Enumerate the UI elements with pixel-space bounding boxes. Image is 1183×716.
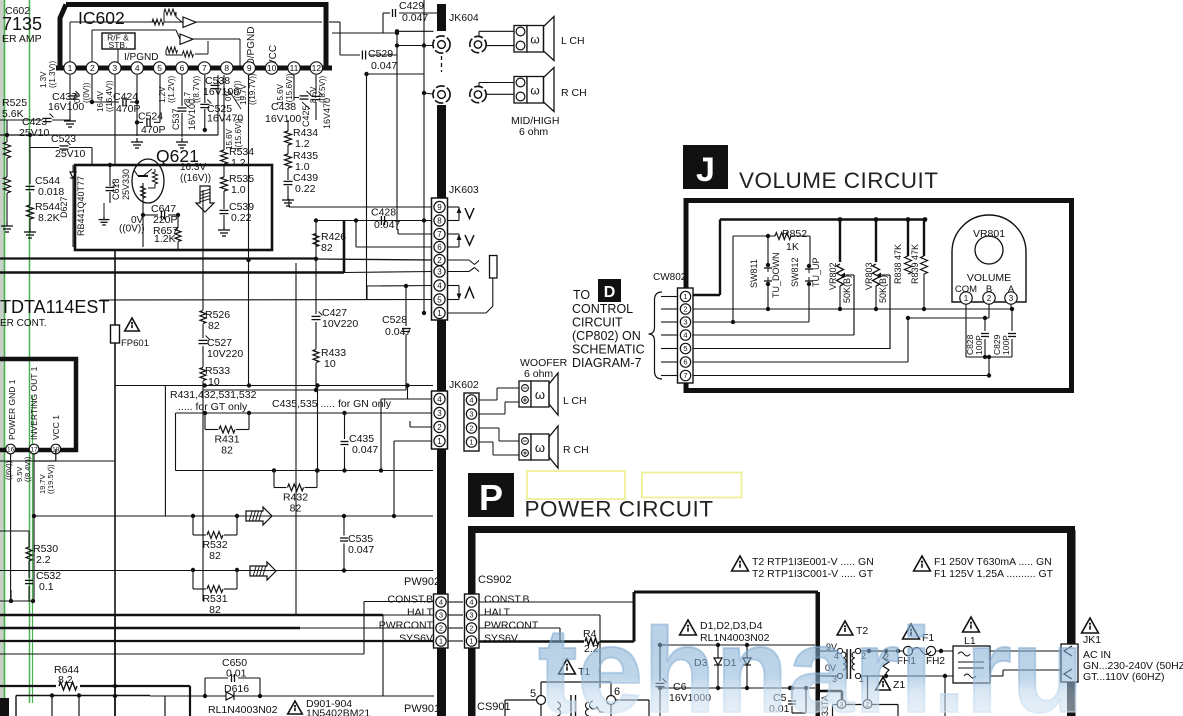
svg-text:JK603: JK603: [449, 184, 479, 196]
svg-text:F1 125V 1.25A .......... GT: F1 125V 1.25A .......... GT: [934, 568, 1054, 580]
svg-text:R CH: R CH: [563, 444, 589, 456]
svg-text:10: 10: [208, 376, 220, 388]
svg-text:1: 1: [469, 637, 473, 646]
svg-text:CONST.B: CONST.B: [484, 594, 530, 606]
svg-text:4: 4: [469, 396, 473, 405]
svg-text:16V470: 16V470: [322, 98, 332, 129]
svg-text:R CH: R CH: [561, 87, 587, 99]
svg-text:6: 6: [683, 358, 687, 367]
svg-text:0.047: 0.047: [348, 544, 374, 556]
svg-text:D: D: [604, 284, 616, 301]
svg-text:SW811: SW811: [749, 259, 759, 288]
svg-text:0.22: 0.22: [295, 183, 316, 195]
svg-text:5.6K: 5.6K: [2, 108, 24, 120]
svg-text:25V10: 25V10: [19, 127, 50, 139]
svg-text:16: 16: [7, 446, 15, 453]
svg-text:D627: D627: [59, 196, 69, 218]
svg-text:C528: C528: [382, 314, 407, 326]
svg-text:CS902: CS902: [478, 574, 512, 586]
svg-text:6 ohm: 6 ohm: [524, 368, 553, 380]
svg-text:C428: C428: [371, 207, 396, 219]
svg-text:16V100: 16V100: [265, 113, 301, 125]
svg-text:ω: ω: [530, 33, 539, 47]
svg-text:C425: C425: [301, 105, 311, 127]
svg-text:L CH: L CH: [561, 35, 585, 47]
svg-text:1.3V: 1.3V: [39, 71, 48, 88]
svg-text:6 ohm: 6 ohm: [519, 126, 548, 138]
svg-text:2: 2: [683, 305, 687, 314]
svg-text:L CH: L CH: [563, 395, 587, 407]
svg-text:5: 5: [157, 63, 162, 73]
svg-text:1: 1: [683, 292, 687, 301]
svg-text:O/PGND: O/PGND: [246, 27, 257, 66]
svg-text:C438: C438: [271, 101, 296, 113]
svg-text:TO: TO: [573, 288, 590, 302]
svg-text:VR802: VR802: [828, 262, 838, 290]
svg-text:8: 8: [437, 216, 442, 225]
svg-text:100P: 100P: [1001, 335, 1011, 355]
svg-text:SCHEMATIC: SCHEMATIC: [572, 343, 645, 357]
svg-text:1N5402BM21: 1N5402BM21: [306, 708, 370, 716]
svg-text:3: 3: [469, 410, 473, 419]
svg-text:0.047: 0.047: [371, 60, 397, 72]
svg-text:10: 10: [267, 63, 277, 73]
svg-text:PW902: PW902: [404, 576, 440, 588]
svg-text:3: 3: [439, 611, 443, 620]
svg-text:1.2K: 1.2K: [154, 233, 176, 245]
svg-text:470P: 470P: [141, 124, 166, 136]
svg-text:2: 2: [439, 624, 443, 633]
svg-text:2: 2: [469, 424, 473, 433]
svg-text:25V330: 25V330: [121, 169, 131, 200]
svg-text:R431,432,531,532: R431,432,531,532: [170, 389, 257, 401]
svg-text:C529: C529: [368, 48, 393, 60]
svg-text:ER CONT.: ER CONT.: [0, 318, 47, 329]
svg-text:..... for GT only: ..... for GT only: [178, 401, 248, 413]
svg-text:11: 11: [290, 63, 299, 73]
svg-text:VCC 1: VCC 1: [51, 415, 61, 440]
svg-text:1.2: 1.2: [295, 138, 310, 150]
svg-text:1.2V: 1.2V: [158, 86, 167, 103]
svg-text:RB441Q40T77: RB441Q40T77: [76, 176, 86, 236]
svg-text:CIRCUIT: CIRCUIT: [572, 316, 623, 330]
svg-text:16.4V: 16.4V: [96, 90, 105, 112]
svg-text:SW812: SW812: [790, 257, 800, 287]
svg-text:((1.3V)): ((1.3V)): [48, 61, 57, 88]
svg-text:VR801: VR801: [973, 228, 1005, 240]
svg-text:1.2: 1.2: [231, 157, 246, 169]
svg-text:8.2K: 8.2K: [38, 212, 60, 224]
svg-text:2.2: 2.2: [36, 554, 51, 566]
svg-text:16.3V: 16.3V: [180, 162, 206, 173]
svg-text:F1 250V T630mA ..... GN: F1 250V T630mA ..... GN: [934, 556, 1052, 568]
svg-text:10V220: 10V220: [322, 318, 358, 330]
svg-text:TU_DOWN: TU_DOWN: [771, 253, 781, 299]
svg-text:FP601: FP601: [121, 338, 149, 349]
svg-text:2: 2: [437, 256, 442, 265]
svg-text:2: 2: [437, 423, 442, 432]
svg-text:R839 47K: R839 47K: [910, 244, 920, 284]
svg-text:16V100: 16V100: [48, 101, 84, 113]
svg-text:1: 1: [437, 437, 442, 446]
svg-text:4: 4: [683, 331, 687, 340]
svg-text:PWRCONT: PWRCONT: [379, 620, 434, 632]
svg-text:VOLUME CIRCUIT: VOLUME CIRCUIT: [739, 168, 939, 193]
svg-text:5: 5: [530, 688, 536, 700]
svg-text:4: 4: [437, 395, 442, 404]
svg-text:P: P: [479, 477, 503, 518]
svg-text:9: 9: [247, 63, 252, 73]
svg-text:((8.7V)): ((8.7V)): [192, 76, 201, 103]
svg-text:((19.7V)): ((19.7V)): [248, 73, 257, 105]
svg-text:ω: ω: [535, 440, 545, 455]
svg-text:(CP802) ON: (CP802) ON: [572, 329, 641, 343]
svg-text:I/PGND: I/PGND: [124, 52, 158, 63]
svg-text:5: 5: [437, 295, 442, 304]
svg-text:((19.5V)): ((19.5V)): [46, 464, 55, 494]
svg-text:TU_UP: TU_UP: [811, 257, 821, 287]
svg-text:IC602: IC602: [78, 8, 125, 28]
svg-text:7135: 7135: [2, 14, 42, 34]
svg-text:tehnari.ru: tehnari.ru: [538, 602, 1084, 716]
svg-text:25V10: 25V10: [55, 148, 86, 160]
svg-text:1: 1: [964, 294, 969, 303]
svg-text:RL1N4003N02: RL1N4003N02: [208, 704, 278, 716]
svg-text:R838 47K: R838 47K: [893, 244, 903, 284]
svg-text:PWRCONT: PWRCONT: [484, 620, 539, 632]
svg-text:0.047: 0.047: [352, 444, 378, 456]
svg-text:19.7V: 19.7V: [239, 83, 248, 105]
svg-text:16V100: 16V100: [203, 86, 239, 98]
svg-text:((0V)): ((0V)): [82, 82, 91, 103]
svg-text:82: 82: [208, 320, 220, 332]
svg-text:82: 82: [290, 503, 302, 515]
svg-text:0.047: 0.047: [402, 12, 428, 24]
svg-text:INVERTING OUT 1: INVERTING OUT 1: [29, 366, 39, 440]
svg-text:C429: C429: [399, 0, 424, 12]
svg-text:CW802: CW802: [653, 272, 687, 283]
svg-text:82: 82: [321, 242, 333, 254]
svg-text:1.0: 1.0: [231, 184, 246, 196]
svg-text:3: 3: [469, 611, 473, 620]
svg-text:VR803: VR803: [864, 262, 874, 290]
svg-text:CONST.B: CONST.B: [387, 594, 433, 606]
svg-text:HALT: HALT: [407, 607, 434, 619]
svg-text:((8.4V)): ((8.4V)): [23, 456, 32, 482]
svg-text:82: 82: [221, 445, 233, 457]
svg-text:82: 82: [209, 550, 221, 562]
svg-text:ER AMP: ER AMP: [2, 33, 42, 45]
svg-text:10: 10: [324, 358, 336, 370]
svg-text:4: 4: [437, 281, 442, 290]
svg-text:0.1: 0.1: [39, 581, 54, 593]
svg-text:100P: 100P: [974, 335, 984, 355]
svg-text:5: 5: [683, 344, 687, 353]
svg-text:TDTA114EST: TDTA114EST: [0, 297, 109, 317]
svg-text:CONTROL: CONTROL: [572, 302, 633, 316]
svg-text:4: 4: [135, 63, 140, 73]
svg-text:3: 3: [683, 318, 687, 327]
svg-text:STB.: STB.: [109, 40, 128, 50]
svg-text:3: 3: [437, 409, 442, 418]
svg-text:6: 6: [180, 63, 185, 73]
svg-text:4: 4: [469, 598, 473, 607]
svg-text:50K(B): 50K(B): [842, 275, 852, 303]
svg-text:0.018: 0.018: [38, 186, 64, 198]
svg-text:C618: C618: [111, 178, 121, 200]
svg-text:C435,535 ..... for GN only: C435,535 ..... for GN only: [272, 398, 392, 410]
svg-text:7: 7: [683, 371, 687, 380]
svg-text:T2 RTP1I3C001-V ..... GT: T2 RTP1I3C001-V ..... GT: [752, 568, 874, 580]
svg-text:SYS6V: SYS6V: [399, 633, 433, 645]
svg-text:1: 1: [437, 309, 442, 318]
svg-text:8: 8: [224, 63, 229, 73]
svg-text:POWER GND 1: POWER GND 1: [7, 379, 17, 440]
svg-text:DIAGRAM-7: DIAGRAM-7: [572, 356, 642, 370]
svg-text:1: 1: [469, 438, 473, 447]
svg-text:J: J: [696, 151, 715, 189]
svg-text:JK1: JK1: [1083, 634, 1101, 646]
svg-text:4: 4: [439, 598, 443, 607]
svg-text:PW901: PW901: [404, 703, 440, 715]
svg-text:VOLUME: VOLUME: [967, 272, 1011, 284]
svg-text:((0V)): ((0V)): [119, 224, 145, 235]
svg-text:1K: 1K: [786, 241, 799, 253]
svg-text:POWER CIRCUIT: POWER CIRCUIT: [525, 497, 714, 522]
svg-text:HALT: HALT: [484, 607, 511, 619]
svg-text:16V100: 16V100: [187, 99, 197, 130]
svg-text:((1.2V)): ((1.2V)): [167, 76, 176, 103]
svg-text:((16V)): ((16V)): [180, 173, 211, 184]
svg-text:((6V)): ((6V)): [4, 460, 13, 480]
svg-text:10V220: 10V220: [207, 348, 243, 360]
svg-text:16V470: 16V470: [207, 113, 243, 125]
svg-text:ω: ω: [530, 84, 539, 98]
svg-text:JK602: JK602: [449, 379, 479, 391]
svg-text:7: 7: [202, 63, 207, 73]
svg-text:GT...110V (60HZ): GT...110V (60HZ): [1083, 671, 1165, 683]
svg-text:2: 2: [469, 624, 473, 633]
svg-text:0.047: 0.047: [374, 219, 400, 231]
svg-text:50K(B): 50K(B): [878, 275, 888, 303]
svg-text:3: 3: [437, 267, 442, 276]
svg-text:12: 12: [312, 63, 322, 73]
svg-text:T2 RTP1I3E001-V ..... GN: T2 RTP1I3E001-V ..... GN: [752, 556, 874, 568]
svg-text:3: 3: [112, 63, 117, 73]
svg-text:2: 2: [987, 294, 992, 303]
svg-text:17: 17: [30, 446, 38, 453]
svg-text:7: 7: [437, 230, 442, 239]
svg-text:9: 9: [437, 203, 442, 212]
svg-text:1: 1: [68, 63, 73, 73]
svg-text:6: 6: [437, 243, 442, 252]
svg-text:3: 3: [1009, 294, 1014, 303]
svg-text:2: 2: [90, 63, 95, 73]
svg-text:1: 1: [439, 637, 443, 646]
svg-text:JK604: JK604: [449, 12, 479, 24]
svg-text:ω: ω: [535, 387, 545, 402]
